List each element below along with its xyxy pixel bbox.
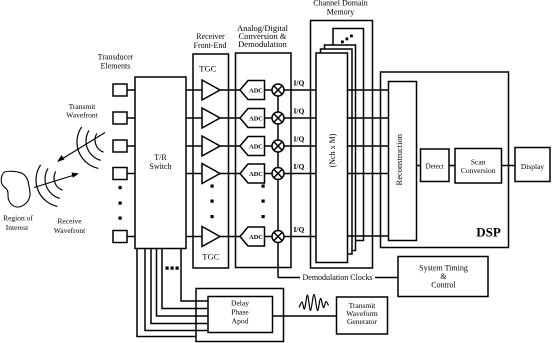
transmit pulse squiggle (299, 295, 329, 311)
wire T/R to amp A1 (186, 89, 202, 91)
svg-text:TGC: TGC (202, 252, 219, 262)
wire reconstruction to detect (417, 165, 421, 167)
wire A1 to ADC1 (220, 89, 240, 91)
label Receiver Front-End (194, 32, 227, 50)
label Transducer Elements (98, 53, 134, 71)
amplifier A1 (202, 80, 220, 100)
svg-text:Control: Control (431, 281, 456, 290)
wire T/R to amp A3 (186, 145, 202, 147)
svg-text:Reconstruction: Reconstruction (394, 133, 404, 185)
wire memory to reconstruction row3 (348, 145, 389, 147)
wire E4 to T/R (127, 173, 135, 175)
mixer M1 (272, 84, 284, 96)
ellipsis delay bus (166, 267, 179, 270)
label Transmit Wavefront (66, 102, 98, 120)
transmit arrow (57, 133, 105, 163)
wire T/R to delay bus 3 (157, 249, 209, 317)
wire M4 to memory with I/Q (284, 162, 316, 174)
svg-text:I/Q: I/Q (294, 79, 305, 88)
ellipsis receiver column (211, 185, 214, 219)
label Channel Domain Memory (313, 0, 367, 17)
transducer element E3 (113, 140, 127, 152)
wire A3 to ADC3 (220, 145, 240, 147)
svg-text:TGC: TGC (199, 64, 216, 74)
memory sheet 2 (325, 45, 356, 251)
T/R switch block (135, 77, 186, 249)
svg-text:ADC: ADC (249, 116, 263, 123)
ellipsis memory stack (341, 35, 353, 44)
ADC2 (240, 109, 265, 128)
wire demodulation clocks left (278, 277, 300, 279)
wire T/R to delay bus 2 (162, 249, 208, 309)
receiver front-end block (193, 54, 229, 268)
transducer element E4 (113, 168, 127, 180)
analog/digital conversion block (236, 53, 292, 268)
mixer M3 (272, 140, 284, 152)
receive arrow (34, 173, 79, 188)
wire M5 to memory with I/Q (284, 225, 316, 237)
ellipsis ADC column (262, 185, 265, 219)
transducer element E5 (113, 231, 127, 243)
wire M2 to memory with I/Q (284, 107, 316, 119)
svg-text:ADC: ADC (249, 88, 263, 95)
memory sheet front (Nch x M) (316, 53, 348, 263)
wire mixer clock chain (277, 96, 279, 278)
channel domain memory outer box (311, 21, 373, 269)
svg-text:I/Q: I/Q (294, 135, 305, 144)
label Analog/Digital Conversion & Demodulation (237, 23, 289, 49)
label Region of Interest (3, 214, 33, 233)
amplifier A4 (202, 164, 220, 184)
amplifier A3 (202, 136, 220, 156)
wire demodulation clocks right (375, 277, 398, 279)
wire M3 to memory with I/Q (284, 135, 316, 147)
delay phase apod block (208, 297, 273, 333)
svg-text:Elements: Elements (101, 62, 131, 71)
mixer M4 (272, 168, 284, 180)
amplifier A2 (202, 108, 220, 128)
wire memory to reconstruction row5 (348, 235, 389, 237)
wire E1 to T/R (127, 89, 135, 91)
svg-text:ADC: ADC (249, 234, 263, 241)
svg-text:I/Q: I/Q (294, 162, 305, 171)
transducer element E2 (113, 112, 127, 124)
ADC1 (240, 81, 265, 100)
transmit wavefront arcs (77, 127, 104, 169)
transmit waveform generator block (337, 297, 388, 334)
svg-text:Apod: Apod (232, 317, 249, 326)
svg-text:I/Q: I/Q (294, 107, 305, 116)
wire A2 to ADC2 (220, 117, 240, 119)
svg-text:Interest: Interest (6, 223, 29, 232)
wire scan conversion to display (502, 165, 516, 167)
svg-text:Phase: Phase (231, 308, 249, 317)
region of interest blob (1, 171, 30, 207)
mixer M2 (272, 112, 284, 124)
scan conversion block (455, 149, 502, 184)
wire T/R to delay bus 1 (181, 249, 208, 302)
wire ADC5 to mixer M5 (265, 236, 273, 238)
system timing and control block (398, 257, 488, 297)
detect block (421, 149, 450, 182)
memory sheet 3 (321, 49, 353, 254)
svg-text:Receive: Receive (57, 217, 82, 226)
mixer M5 (272, 231, 284, 243)
reconstruction block (389, 82, 417, 241)
wire T/R to amp A4 (186, 173, 202, 175)
svg-text:Receiver: Receiver (196, 32, 225, 41)
svg-text:Display: Display (521, 162, 545, 171)
svg-text:Front-End: Front-End (194, 41, 227, 50)
svg-text:Detect: Detect (426, 163, 444, 171)
wire delay to transmit waveform generator (273, 315, 337, 317)
amplifier A5 (202, 227, 220, 247)
wire memory to reconstruction row4 (348, 173, 389, 175)
wire ADC4 to mixer M4 (265, 173, 273, 175)
svg-text:Conversion: Conversion (461, 166, 496, 175)
DSP outer box (381, 72, 509, 248)
wire T/R to delay bus 6 (137, 249, 196, 337)
svg-text:DSP: DSP (476, 225, 501, 240)
wire A4 to ADC4 (220, 173, 240, 175)
svg-text:I/Q: I/Q (294, 225, 305, 234)
svg-text:Switch: Switch (149, 162, 171, 171)
svg-text:Generator: Generator (347, 317, 377, 326)
svg-text:Channel Domain: Channel Domain (313, 0, 367, 8)
svg-text:(Nch x M): (Nch x M) (328, 133, 337, 167)
wire memory to reconstruction row1 (348, 89, 389, 91)
display block (515, 148, 550, 182)
wire E3 to T/R (127, 145, 135, 147)
ellipsis transducer column (119, 186, 122, 220)
wire E2 to T/R (127, 117, 135, 119)
svg-text:Demodulation Clocks: Demodulation Clocks (303, 273, 373, 282)
wire T/R to delay bus 5 (145, 249, 208, 331)
svg-text:Wavefront: Wavefront (54, 226, 86, 235)
transducer element E1 (113, 84, 127, 96)
wire memory to reconstruction row2 (348, 117, 389, 119)
label Receive Wavefront (54, 217, 86, 236)
wire ADC3 to mixer M3 (265, 145, 273, 147)
wire T/R to amp A5 (186, 236, 202, 238)
wire E5 to T/R (127, 236, 135, 238)
svg-text:Region of: Region of (3, 214, 33, 223)
svg-text:T/R: T/R (154, 153, 167, 162)
delay phase apod outer box (196, 289, 284, 342)
ADC5 (240, 227, 265, 246)
svg-text:Demodulation: Demodulation (238, 39, 287, 49)
ADC3 (240, 137, 265, 156)
svg-text:Memory: Memory (327, 8, 355, 17)
wire M1 to memory with I/Q (284, 79, 316, 91)
svg-text:Wavefront: Wavefront (66, 111, 98, 120)
wire ADC1 to mixer M1 (265, 89, 273, 91)
memory sheet back (333, 29, 364, 241)
wire T/R to delay bus 4 (151, 249, 208, 324)
wire ADC2 to mixer M2 (265, 117, 273, 119)
wire detect to scan conversion (449, 165, 455, 167)
wire A5 to ADC5 (220, 236, 240, 238)
ADC4 (240, 164, 265, 183)
svg-text:Transducer: Transducer (98, 53, 134, 62)
svg-text:Delay: Delay (231, 299, 249, 308)
svg-text:ADC: ADC (249, 144, 263, 151)
wire T/R to amp A2 (186, 117, 202, 119)
receive wavefront arcs (36, 165, 63, 207)
svg-text:ADC: ADC (249, 171, 263, 178)
